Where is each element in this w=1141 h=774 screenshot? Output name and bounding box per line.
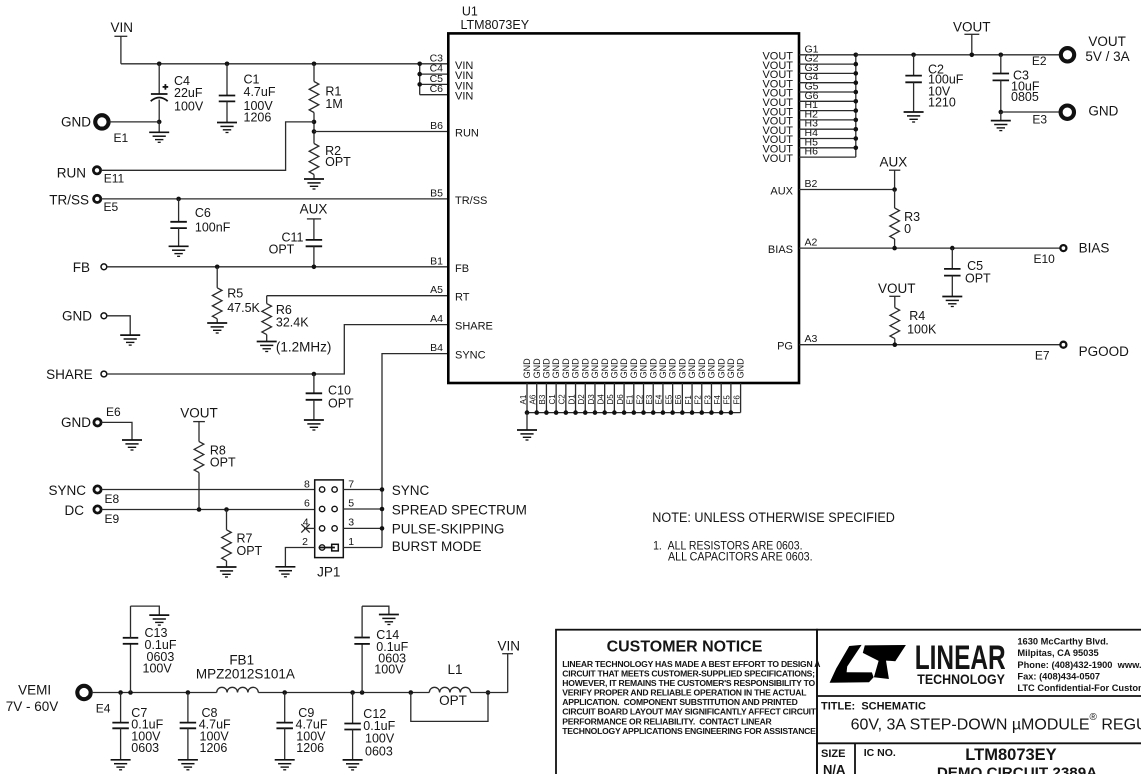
resistor R3 (0)	[894, 190, 896, 209]
svg-text:TR/SS: TR/SS	[455, 195, 487, 207]
wire BIAS pin A2 to E10	[799, 247, 1060, 249]
svg-text:E1: E1	[114, 131, 129, 145]
svg-text:1M: 1M	[325, 97, 342, 111]
svg-text:GND: GND	[619, 358, 629, 379]
svg-text:APPLICATION. COMPONENT SUBSTI: APPLICATION. COMPONENT SUBSTITUTION AND …	[562, 697, 797, 707]
capacitor C11 (OPT)	[306, 239, 323, 241]
svg-text:L1: L1	[447, 662, 462, 677]
terminal E2 VOUT	[1061, 48, 1074, 61]
svg-text:IC NO.: IC NO.	[864, 747, 896, 759]
JP1 right stubs to sync column	[343, 489, 382, 491]
ground below JP1 pin 2	[275, 567, 295, 577]
svg-text:E4: E4	[655, 394, 664, 404]
resistor R5 (47.5K)	[216, 267, 218, 288]
svg-text:F2: F2	[694, 395, 703, 405]
wire rail to VIN flag	[471, 692, 508, 694]
svg-text:NOTE: UNLESS OTHERWISE SPECIFI: NOTE: UNLESS OTHERWISE SPECIFIED	[652, 510, 895, 525]
svg-text:Phone: (408)432-1900 www.line: Phone: (408)432-1900 www.linear.com	[1017, 660, 1141, 670]
capacitor C6 (100nF)	[176, 197, 181, 202]
customer notice box	[556, 630, 817, 774]
svg-text:VOUT: VOUT	[878, 281, 916, 296]
wire RUN to pin B6	[314, 131, 448, 133]
wire SHARE to pin A4	[107, 325, 449, 374]
wire PG pin A3 to E7	[799, 344, 1060, 346]
capacitor C12 (0.1uF 100V 0603)	[352, 693, 354, 724]
svg-text:E10: E10	[1033, 252, 1055, 266]
svg-text:GND: GND	[522, 358, 532, 379]
capacitor C3 (10uF 0805)	[999, 53, 1004, 58]
ground below C8	[178, 760, 198, 770]
svg-text:BIAS: BIAS	[768, 244, 793, 256]
ground below GND terminal	[120, 335, 140, 345]
svg-text:LTM8073EY: LTM8073EY	[461, 18, 530, 32]
svg-text:SIZE: SIZE	[821, 748, 845, 760]
wire E1 to C4	[109, 121, 159, 123]
wire VOUT rail	[856, 54, 1060, 56]
svg-text:Fax: (408)434-0507: Fax: (408)434-0507	[1017, 672, 1100, 682]
svg-text:100V: 100V	[365, 731, 395, 745]
svg-text:VOUT: VOUT	[180, 406, 218, 421]
svg-text:HOWEVER, IT REMAINS THE CUSTOM: HOWEVER, IT REMAINS THE CUSTOMER'S RESPO…	[562, 678, 815, 688]
JP1 pin 4 no-connect X	[304, 527, 315, 529]
svg-text:C10: C10	[328, 383, 351, 397]
JP1 pin 2 wire to ground	[285, 548, 314, 567]
svg-text:GND: GND	[726, 358, 736, 379]
ground below C7	[111, 760, 131, 770]
svg-text:F3: F3	[703, 395, 712, 405]
svg-text:SHARE: SHARE	[46, 367, 93, 382]
resistor R6 (32.4K)	[266, 296, 268, 304]
svg-text:OPT: OPT	[210, 456, 236, 470]
svg-text:VIN: VIN	[110, 20, 133, 35]
capacitor C1 (4.7uF 100V 1206)	[225, 62, 230, 67]
svg-text:GND: GND	[1088, 104, 1118, 119]
capacitor C4 (22uF 100V polarized)	[157, 62, 162, 67]
svg-text:100K: 100K	[907, 323, 937, 337]
svg-text:B2: B2	[805, 178, 818, 190]
svg-text:E9: E9	[105, 512, 120, 526]
resistor R8 (OPT)	[194, 442, 204, 473]
svg-text:22uF: 22uF	[174, 86, 203, 100]
svg-text:RT: RT	[455, 292, 470, 304]
svg-text:E3: E3	[645, 394, 654, 404]
svg-text:1210: 1210	[928, 96, 956, 110]
svg-text:B4: B4	[430, 342, 443, 354]
svg-text:C1: C1	[548, 394, 557, 405]
wire EMI input rail	[92, 692, 217, 694]
wire VOUT pin stubs	[799, 54, 856, 56]
svg-text:AUX: AUX	[300, 202, 328, 217]
wire SYNC row to JP1 pin 8	[102, 489, 315, 491]
ground below C3	[999, 110, 1004, 115]
svg-text:E8: E8	[105, 492, 120, 506]
svg-text:GND: GND	[590, 358, 600, 379]
wire E6 to ground	[101, 422, 132, 440]
svg-text:GND: GND	[62, 308, 92, 323]
svg-text:D5: D5	[606, 394, 615, 405]
wire VOUT collector bus	[855, 55, 857, 157]
svg-text:GND: GND	[532, 358, 542, 379]
svg-text:GND: GND	[707, 358, 717, 379]
svg-text:4.7uF: 4.7uF	[244, 85, 276, 99]
wire AUX pin B2	[799, 189, 895, 191]
terminal E10 BIAS	[1060, 245, 1066, 251]
ground below C9	[275, 760, 295, 770]
svg-text:A4: A4	[430, 313, 443, 325]
svg-text:LINEAR TECHNOLOGY HAS MADE A B: LINEAR TECHNOLOGY HAS MADE A BEST EFFORT…	[562, 659, 820, 669]
connector JP1 body	[315, 480, 344, 558]
svg-text:GND: GND	[609, 358, 619, 379]
ground above C14	[379, 615, 399, 625]
svg-text:JP1: JP1	[317, 564, 340, 579]
svg-text:A1: A1	[519, 394, 528, 404]
wire rail FB1 to L1	[258, 692, 429, 694]
resistor R4 (100K)	[890, 308, 900, 339]
wire VIN rail	[121, 63, 420, 65]
svg-text:R5: R5	[227, 287, 243, 301]
svg-text:C6: C6	[430, 83, 444, 95]
wire DC row to JP1 pin 6	[102, 509, 315, 511]
svg-text:1630 McCarthy Blvd.: 1630 McCarthy Blvd.	[1017, 636, 1108, 646]
capacitor C10 (OPT)	[313, 374, 315, 393]
svg-text:60V, 3A STEP-DOWN µMODULE® REG: 60V, 3A STEP-DOWN µMODULE® REGULATOR	[851, 712, 1141, 734]
svg-text:C2: C2	[558, 394, 567, 405]
svg-text:100nF: 100nF	[195, 220, 231, 234]
svg-text:OPT: OPT	[325, 155, 351, 169]
svg-text:GND: GND	[61, 415, 91, 430]
svg-text:CIRCUIT THAT MEETS CUSTOMER-SU: CIRCUIT THAT MEETS CUSTOMER-SUPPLIED SPE…	[562, 668, 815, 678]
ground above C13	[149, 615, 169, 625]
svg-text:SYNC: SYNC	[392, 483, 430, 498]
svg-text:GND: GND	[571, 358, 581, 379]
ground below R7	[217, 567, 237, 577]
svg-text:PERFORMANCE OR RELIABILITY. C: PERFORMANCE OR RELIABILITY. CONTACT LINE…	[562, 716, 772, 726]
svg-text:OPT: OPT	[269, 243, 295, 257]
svg-text:OPT: OPT	[439, 693, 467, 708]
svg-text:32.4K: 32.4K	[276, 316, 309, 330]
svg-text:A5: A5	[430, 284, 443, 296]
svg-text:GND: GND	[668, 358, 678, 379]
svg-text:100V: 100V	[374, 663, 404, 677]
svg-text:E1: E1	[626, 394, 635, 404]
svg-text:SHARE: SHARE	[455, 321, 493, 333]
wire VIN pin bus	[419, 64, 421, 95]
svg-text:U1: U1	[462, 5, 478, 19]
ferrite bead FB1 MPZ2012S101A	[217, 687, 259, 692]
svg-text:B5: B5	[430, 187, 443, 199]
wire L1 bypass path	[411, 693, 488, 722]
svg-text:N/A: N/A	[823, 762, 846, 774]
resistor R2 (OPT)	[309, 144, 319, 175]
junction dots on VIN bus	[417, 62, 422, 67]
ground below E6	[122, 440, 142, 450]
U1 bottom GND pins	[526, 383, 528, 413]
ground below C4	[157, 120, 162, 125]
svg-text:100V: 100V	[143, 661, 173, 675]
wire SYNC pin B4 to jumper column	[382, 354, 448, 548]
svg-text:CIRCUIT BOARD LAYOUT MAY SIGNI: CIRCUIT BOARD LAYOUT MAY SIGNIFICANTLY A…	[562, 707, 816, 717]
wire C3 junction to E3	[1001, 111, 1059, 113]
svg-text:1206: 1206	[200, 741, 228, 755]
svg-text:SPREAD SPECTRUM: SPREAD SPECTRUM	[392, 502, 527, 517]
title block divider lines	[817, 695, 1141, 697]
svg-text:8: 8	[304, 478, 310, 490]
svg-text:BURST MODE: BURST MODE	[392, 539, 482, 554]
svg-text:GND: GND	[687, 358, 697, 379]
svg-text:GND: GND	[561, 358, 571, 379]
svg-text:ALL CAPACITORS ARE 0603.: ALL CAPACITORS ARE 0603.	[668, 550, 813, 564]
svg-text:AUX: AUX	[880, 154, 908, 169]
svg-text:E5: E5	[664, 394, 673, 404]
op-amp U1 LTM8073EY module body	[448, 33, 799, 383]
svg-text:DC: DC	[65, 503, 85, 518]
svg-text:5V / 3A: 5V / 3A	[1085, 49, 1129, 64]
svg-text:OPT: OPT	[965, 272, 991, 286]
svg-text:D3: D3	[587, 394, 596, 405]
svg-text:1206: 1206	[244, 111, 272, 125]
svg-text:VEMI: VEMI	[18, 683, 51, 698]
svg-text:C6: C6	[195, 206, 211, 220]
svg-text:TECHNOLOGY: TECHNOLOGY	[917, 672, 1005, 687]
capacitor C9 (4.7uF 100V 1206)	[284, 693, 286, 723]
node R1/R2 junction	[312, 120, 317, 125]
svg-text:3: 3	[348, 517, 354, 529]
title block outer box	[817, 630, 1141, 774]
wire VIN pin stubs C3-C6	[420, 63, 449, 65]
wire GND terminal to ground	[107, 316, 130, 335]
svg-text:0603: 0603	[131, 741, 159, 755]
svg-text:F6: F6	[732, 395, 741, 405]
svg-text:DEMO CIRCUIT 2389A: DEMO CIRCUIT 2389A	[937, 765, 1097, 774]
svg-text:E7: E7	[1035, 349, 1050, 363]
svg-text:GND: GND	[658, 358, 668, 379]
svg-text:E6: E6	[106, 405, 121, 419]
svg-text:D2: D2	[577, 394, 586, 405]
svg-text:0: 0	[904, 222, 911, 236]
svg-text:0603: 0603	[365, 744, 393, 758]
svg-text:PGOOD: PGOOD	[1079, 344, 1130, 359]
svg-text:F1: F1	[684, 395, 693, 405]
svg-text:47.5K: 47.5K	[227, 301, 260, 315]
terminal E7 PGOOD	[1060, 342, 1066, 348]
svg-text:CUSTOMER NOTICE: CUSTOMER NOTICE	[607, 638, 763, 655]
svg-text:SYNC: SYNC	[48, 483, 86, 498]
ground below R2	[304, 179, 324, 189]
svg-text:VOUT: VOUT	[762, 153, 793, 165]
svg-text:B1: B1	[430, 255, 443, 267]
wire FB to pin B1	[107, 266, 449, 268]
svg-text:VIN: VIN	[498, 638, 521, 653]
svg-text:R4: R4	[909, 309, 925, 323]
svg-text:F5: F5	[723, 395, 732, 405]
svg-text:E2: E2	[1032, 54, 1047, 68]
svg-text:F4: F4	[713, 395, 722, 405]
svg-text:GND: GND	[551, 358, 561, 379]
ground below C6	[169, 246, 189, 256]
svg-text:GND: GND	[648, 358, 658, 379]
svg-text:MPZ2012S101A: MPZ2012S101A	[196, 667, 295, 682]
ground below C5	[942, 297, 962, 307]
ground below R5	[207, 323, 227, 333]
capacitor C5 (OPT)	[951, 248, 953, 269]
svg-text:A6: A6	[529, 394, 538, 404]
wire RT pin A5	[267, 295, 449, 297]
svg-text:D4: D4	[596, 394, 605, 405]
svg-text:VERIFY PROPER AND RELIABLE OPE: VERIFY PROPER AND RELIABLE OPERATION IN …	[562, 688, 806, 698]
logo Linear Technology LT glyph	[830, 645, 874, 683]
inductor L1 (OPT)	[429, 687, 470, 692]
svg-text:E6: E6	[674, 394, 683, 404]
svg-text:(1.2MHz): (1.2MHz)	[276, 339, 332, 354]
svg-text:VOUT: VOUT	[1088, 34, 1126, 49]
svg-text:Milpitas, CA 95035: Milpitas, CA 95035	[1017, 648, 1098, 658]
svg-text:BIAS: BIAS	[1079, 241, 1110, 256]
svg-text:1206: 1206	[296, 741, 324, 755]
svg-text:GND: GND	[600, 358, 610, 379]
svg-text:A3: A3	[805, 333, 818, 345]
ground below GND bus	[526, 413, 528, 430]
resistor R7 (OPT)	[226, 510, 228, 530]
svg-text:E4: E4	[96, 702, 111, 716]
wire TR/SS to pin B5	[101, 198, 448, 200]
svg-text:GND: GND	[542, 358, 552, 379]
svg-text:VIN: VIN	[455, 91, 473, 103]
svg-text:PULSE-SKIPPING: PULSE-SKIPPING	[392, 522, 505, 537]
svg-text:GND: GND	[61, 115, 91, 130]
wire GND pin bus	[527, 412, 741, 414]
svg-text:E11: E11	[104, 172, 125, 186]
svg-text:B3: B3	[538, 394, 547, 404]
svg-text:PG: PG	[777, 341, 793, 353]
svg-text:LTM8073EY: LTM8073EY	[965, 746, 1056, 764]
svg-text:GND: GND	[580, 358, 590, 379]
capacitor C2 (100uF 10V 1210)	[911, 53, 916, 58]
svg-text:7: 7	[348, 478, 354, 490]
svg-text:B6: B6	[430, 120, 443, 132]
svg-text:GND: GND	[716, 358, 726, 379]
capacitor C14 (0.1uF 0603 100V)	[361, 644, 363, 693]
svg-text:100V: 100V	[174, 99, 204, 113]
capacitor C7 (0.1uF 100V 0603)	[120, 693, 122, 723]
svg-text:GND: GND	[697, 358, 707, 379]
svg-text:A2: A2	[805, 237, 818, 249]
svg-text:LTC Confidential-For Customer: LTC Confidential-For Customer Use Only	[1017, 683, 1141, 693]
svg-text:GND: GND	[677, 358, 687, 379]
svg-text:AUX: AUX	[770, 186, 793, 198]
wire RUN from E11 to R1/R2 junction	[101, 122, 314, 170]
JP1 shunt on pins 2-1	[332, 544, 339, 551]
ground below C10	[304, 420, 324, 430]
ground below C2	[904, 112, 924, 122]
svg-text:FB1: FB1	[229, 652, 254, 667]
svg-text:RUN: RUN	[57, 166, 86, 181]
svg-text:2: 2	[302, 536, 308, 548]
svg-text:E5: E5	[104, 200, 119, 214]
svg-text:GND: GND	[629, 358, 639, 379]
svg-text:FB: FB	[455, 263, 469, 275]
svg-text:E2: E2	[635, 394, 644, 404]
svg-text:OPT: OPT	[328, 397, 354, 411]
svg-text:TECHNOLOGY APPLICATIONS ENGINE: TECHNOLOGY APPLICATIONS ENGINEERING FOR …	[562, 726, 817, 736]
svg-text:D6: D6	[616, 394, 625, 405]
JP1 pin circles	[319, 487, 324, 492]
svg-text:VOUT: VOUT	[953, 19, 991, 34]
svg-text:OPT: OPT	[237, 544, 263, 558]
svg-text:RUN: RUN	[455, 128, 479, 140]
svg-text:TITLE: SCHEMATIC: TITLE: SCHEMATIC	[821, 700, 926, 712]
svg-text:FB: FB	[73, 260, 90, 275]
svg-text:D1: D1	[567, 394, 576, 405]
ground below C1	[217, 123, 237, 133]
ground below R6	[257, 342, 277, 352]
capacitor C13 (0.1uF 0603 100V)	[130, 644, 132, 693]
svg-text:E3: E3	[1032, 112, 1047, 126]
ground below C12	[343, 760, 363, 770]
svg-text:5: 5	[348, 498, 354, 510]
svg-text:0805: 0805	[1011, 90, 1039, 104]
resistor R1 (1M)	[312, 62, 317, 67]
svg-text:6: 6	[304, 498, 310, 510]
svg-text:7V - 60V: 7V - 60V	[6, 699, 59, 714]
svg-text:GND: GND	[736, 358, 746, 379]
svg-text:SYNC: SYNC	[455, 350, 486, 362]
svg-text:GND: GND	[639, 358, 649, 379]
svg-text:1: 1	[348, 536, 354, 548]
capacitor C8 (4.7uF 100V 1206)	[187, 693, 189, 723]
svg-text:TR/SS: TR/SS	[49, 193, 89, 208]
